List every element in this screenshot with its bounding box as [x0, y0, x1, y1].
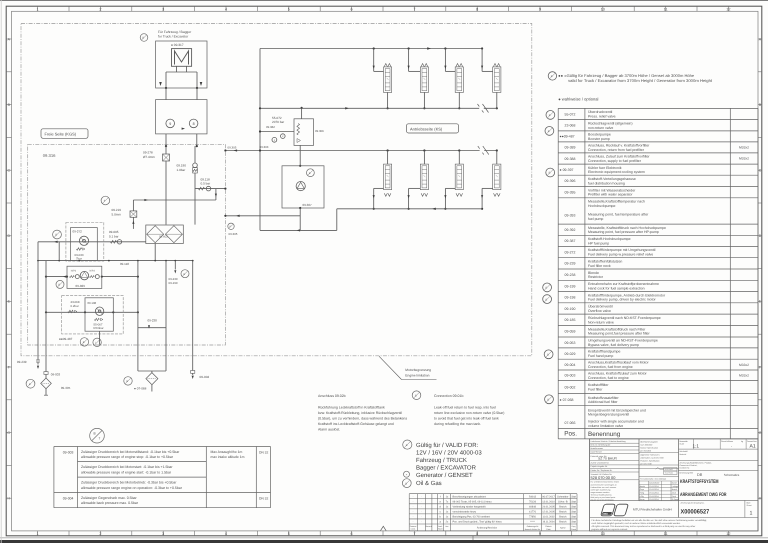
svg-text:unbemaßte, nach DIN 7168: unbemaßte, nach DIN 7168	[640, 456, 663, 459]
svg-text:Kraftstoffeinfüllstutzen: Kraftstoffeinfüllstutzen	[588, 259, 622, 263]
svg-text:Produkte, Spezifikation: Produkte, Spezifikation	[640, 460, 659, 463]
svg-text:09-199: 09-199	[565, 284, 576, 288]
svg-text:09-029: 09-029	[565, 352, 576, 356]
svg-text:Überströmventil: Überströmventil	[588, 305, 613, 309]
svg-text:19.11.2014: 19.11.2014	[649, 485, 658, 488]
svg-text:09-239: 09-239	[17, 360, 27, 364]
svg-text:Measuring point,fuel pressure: Measuring point,fuel pressure after filt…	[588, 332, 651, 336]
svg-text:11.01.2002: 11.01.2002	[542, 516, 555, 519]
svg-text:Anz: Anz	[445, 525, 448, 528]
svg-text:Prefilter with water separator: Prefilter with water separator	[588, 193, 633, 197]
svg-text:purpose without our express co: purpose without our express consent.	[592, 528, 629, 531]
svg-text:B: B	[83, 341, 85, 344]
svg-text:Umgehungsventil an ND-KST-Foer: Umgehungsventil an ND-KST-Foerderpumpe	[588, 339, 658, 343]
svg-text:09.303: 09.303	[260, 145, 269, 149]
svg-text:Kühler fuer Elektronik: Kühler fuer Elektronik	[588, 166, 622, 170]
svg-text:●●09-487: ●●09-487	[59, 337, 73, 341]
svg-text:54043: 54043	[529, 495, 537, 498]
svg-text:9: 9	[169, 122, 171, 126]
svg-text:8: 8	[476, 532, 478, 536]
svg-text:M33x2: M33x2	[739, 146, 749, 150]
svg-text:09-002: 09-002	[565, 385, 576, 389]
svg-text:23-068: 23-068	[565, 124, 576, 128]
svg-text:Broich: Broich	[672, 488, 677, 491]
svg-text:Vorfilter mit Wasserabscheider: Vorfilter mit Wasserabscheider	[588, 188, 636, 192]
svg-text:8: 8	[476, 7, 478, 11]
svg-text:All rights reserved. This docu: All rights reserved. This document may n…	[592, 525, 696, 528]
svg-text:09.316: 09.316	[43, 153, 56, 158]
svg-text:Pos.: Pos.	[564, 431, 577, 438]
svg-text:Oil & Gas: Oil & Gas	[416, 480, 442, 487]
svg-text:Konform-Nr.: Konform-Nr.	[680, 466, 691, 469]
svg-text:09.198: 09.198	[88, 301, 97, 305]
svg-text:require our prior permission.: require our prior permission.	[591, 499, 615, 502]
svg-text:Hochdruckpumpe: Hochdruckpumpe	[588, 204, 615, 208]
svg-text:19.11.2004: 19.11.2004	[542, 521, 555, 524]
svg-text:09-029: 09-029	[76, 284, 86, 288]
svg-text:Datum: Datum	[546, 525, 552, 528]
svg-text:2070 bar: 2070 bar	[272, 120, 284, 124]
svg-text:4: 4	[225, 7, 227, 11]
svg-text:nach ISO1302: nach ISO1302	[640, 443, 652, 446]
svg-text:09-395: 09-395	[565, 190, 576, 194]
svg-text:Dose/Theorie: Dose/Theorie	[591, 450, 602, 453]
svg-text:2: 2	[99, 532, 101, 536]
svg-text:09-059: 09-059	[565, 330, 576, 334]
svg-text:Bypass valve, fuel delivery pu: Bypass valve, fuel delivery pump	[588, 343, 639, 347]
svg-text:Fuel filler neck: Fuel filler neck	[588, 264, 611, 268]
svg-text:Änderungs-Nr: Änderungs-Nr	[527, 525, 539, 528]
svg-text:B: B	[183, 273, 185, 276]
svg-text:06.07.2017: 06.07.2017	[542, 495, 555, 498]
svg-text:0.5 bar: 0.5 bar	[201, 182, 211, 186]
svg-text:C: C	[759, 169, 762, 173]
svg-text:valid for Truck / Excavator fr: valid for Truck / Excavator from 3700m H…	[568, 78, 713, 83]
svg-text:12: 12	[726, 532, 730, 536]
svg-text:Injector with single accumulat: Injector with single accumulator and	[588, 420, 644, 424]
svg-text:Rückführung Leckkraftstoff in: Rückführung Leckkraftstoff in Kraftstoff…	[318, 405, 385, 409]
svg-text:per DIN 7168: per DIN 7168	[640, 463, 651, 466]
svg-text:09.219: 09.219	[112, 208, 122, 212]
svg-text:Zulässiger Druckbereich bei Mo: Zulässiger Druckbereich bei Motorstillst…	[81, 450, 180, 454]
svg-text:Einspritzventil mit Einzelspei: Einspritzventil mit Einzelspeicher und	[588, 408, 646, 412]
svg-text:Datum/Date: Datum/Date	[649, 482, 659, 485]
svg-text:Measuring point, fuel temperat: Measuring point, fuel temperature after	[588, 213, 649, 217]
svg-text:9: 9	[539, 7, 541, 11]
svg-text:volume limitation valve: volume limitation valve	[588, 424, 623, 428]
svg-text:verschleissteile hinzu: verschleissteile hinzu	[453, 510, 477, 513]
svg-text:H: H	[7, 497, 10, 501]
svg-text:DN 32: DN 32	[259, 450, 269, 454]
svg-text:Generator / GENSET: Generator / GENSET	[416, 472, 473, 479]
svg-text:8: 8	[193, 122, 195, 126]
svg-text:12.01.2005: 12.01.2005	[542, 510, 555, 513]
svg-text:1:1: 1:1	[693, 443, 700, 448]
svg-text:Connection, fuel from engine: Connection, fuel from engine	[588, 365, 633, 369]
svg-text:1.0bar: 1.0bar	[177, 168, 186, 172]
svg-text:41776: 41776	[529, 510, 537, 513]
svg-text:09-190: 09-190	[565, 307, 576, 311]
svg-text:7bar: 7bar	[76, 256, 82, 260]
svg-text:SZ 70 BAUR: SZ 70 BAUR	[598, 457, 617, 461]
svg-text:Überdruckventil: Überdruckventil	[588, 110, 613, 114]
svg-text:A1: A1	[750, 444, 756, 450]
svg-text:Allgemeine Toleranzen:: Allgemeine Toleranzen:	[640, 453, 660, 456]
svg-text:B: B	[548, 130, 550, 133]
svg-text:7: 7	[413, 532, 415, 536]
svg-text:B: B	[126, 380, 128, 383]
svg-text:Lieferbares Zubehör / Zubehör-: Lieferbares Zubehör / Zubehör-Bestellung	[591, 440, 626, 443]
svg-text:Stat: Stat	[571, 510, 576, 513]
svg-text:Stat: Stat	[571, 505, 576, 508]
svg-text:S.Her.-B: S.Her.-B	[558, 500, 568, 503]
svg-text:Anschluss, Kraftstoffzulauf zu: Anschluss, Kraftstoffzulauf zum Motor	[588, 371, 648, 375]
svg-text:Fuel filter: Fuel filter	[588, 388, 603, 392]
svg-text:Gewicht/Mass: Gewicht/Mass	[721, 440, 733, 443]
svg-text:98-002 Texte, 05-005, 09-111 h: 98-002 Texte, 05-005, 09-111 hinzu	[453, 500, 493, 503]
svg-text:1: 1	[37, 7, 39, 11]
svg-text:Entnahmehahn zur Kraftstoffpro: Entnahmehahn zur Kraftstoffprobenentnahm…	[588, 282, 659, 286]
svg-text:Zrich: Zrich	[672, 495, 676, 498]
svg-text:09-004: 09-004	[63, 497, 74, 501]
svg-text:D: D	[7, 234, 10, 238]
svg-text:Pos. und Druck geänd., Text 'g: Pos. und Druck geänd., Text 'gültig für'…	[453, 521, 503, 524]
svg-text:7: 7	[413, 7, 415, 11]
svg-text:4: 4	[225, 532, 227, 536]
svg-text:B: B	[546, 287, 548, 290]
svg-text:Für Fahrzeug / Bagger: Für Fahrzeug / Bagger	[158, 30, 192, 34]
svg-text:Bagger / EXCAVATOR: Bagger / EXCAVATOR	[416, 465, 477, 472]
svg-text:Schematics: Schematics	[724, 473, 740, 477]
svg-text:Check: Check	[571, 528, 576, 531]
svg-text:M33x2: M33x2	[739, 363, 749, 367]
svg-text:09-004: 09-004	[565, 363, 576, 367]
svg-text:H: H	[759, 497, 762, 501]
svg-text:09-199: 09-199	[169, 281, 178, 285]
svg-text:Hand cock for fuel sample extr: Hand cock for fuel sample extraction	[588, 286, 645, 290]
svg-text:B: B	[549, 114, 551, 117]
svg-text:Stat: Stat	[571, 500, 576, 503]
svg-text:allowable back pressure max. 0: allowable back pressure max. 0.5bar	[81, 501, 139, 505]
svg-text:Messstelle, Kraftstoffdruck na: Messstelle, Kraftstoffdruck nach Hochdru…	[588, 226, 666, 230]
svg-text:09-392: 09-392	[565, 228, 576, 232]
svg-text:B: B	[547, 399, 549, 402]
svg-text:DB: DB	[697, 473, 703, 477]
svg-text:Name: Name	[672, 482, 677, 485]
svg-text:09-393: 09-393	[565, 214, 576, 218]
svg-text:1: 1	[37, 532, 39, 536]
svg-text:B: B	[415, 394, 417, 397]
svg-text:10: 10	[601, 7, 605, 11]
svg-text:B: B	[549, 172, 551, 175]
svg-text:Zulässiger Gegendruck max. 0.5: Zulässiger Gegendruck max. 0.5bar	[81, 496, 137, 500]
svg-text:P: P	[229, 226, 231, 229]
svg-text:Connection 09.01b: Connection 09.01b	[434, 394, 463, 398]
svg-text:11: 11	[664, 532, 668, 536]
svg-text:Unbrauchbar nur nach unserer: Unbrauchbar nur nach unserer	[591, 486, 617, 489]
svg-text:B: B	[142, 37, 144, 40]
svg-text:M33x2: M33x2	[739, 374, 749, 378]
svg-text:75128: 75128	[529, 500, 537, 503]
svg-text:D: D	[759, 234, 762, 238]
svg-text:Cond.: Cond.	[411, 528, 416, 531]
svg-text:Bemerk: Bemerk	[426, 525, 432, 528]
svg-text:Format/Size: Format/Size	[747, 440, 757, 443]
svg-text:HP fuel pump: HP fuel pump	[588, 241, 609, 245]
svg-text:G: G	[759, 431, 762, 435]
svg-text:Kraftstoff-Verteilungsgehaeuse: Kraftstoff-Verteilungsgehaeuse	[588, 177, 636, 181]
svg-text:allowable pressure range engin: allowable pressure range engine on opera…	[81, 486, 183, 490]
svg-text:Gepr: Gepr	[640, 488, 645, 491]
svg-text:Broich: Broich	[559, 521, 567, 524]
svg-text:77850: 77850	[529, 516, 537, 519]
svg-text:Kraftstoff-Hochdruckpumpe: Kraftstoff-Hochdruckpumpe	[588, 237, 631, 241]
svg-text:5: 5	[288, 7, 290, 11]
svg-text:13.01.2010: 13.01.2010	[542, 500, 555, 503]
svg-text:Werkstoff: Werkstoff	[680, 450, 688, 453]
svg-text:09.118: 09.118	[120, 262, 129, 266]
svg-text:Additional fuel filter: Additional fuel filter	[588, 400, 618, 404]
svg-text:fuel pump: fuel pump	[588, 217, 603, 221]
svg-text:Kraftstoffzusatzfilter: Kraftstoffzusatzfilter	[588, 396, 620, 400]
svg-text:Non-return valve: Non-return valve	[588, 320, 614, 324]
svg-text:Projekt-Angabe-Nr.: Projekt-Angabe-Nr.	[591, 465, 608, 468]
svg-text:24.01.2005: 24.01.2005	[542, 505, 555, 508]
svg-text:MTU Friedrichshafen GmbH: MTU Friedrichshafen GmbH	[633, 508, 672, 512]
svg-text:Restrictor: Restrictor	[588, 275, 604, 279]
svg-text:Freie Seite (KGS): Freie Seite (KGS)	[45, 131, 77, 136]
svg-text:09-053: 09-053	[565, 341, 576, 345]
svg-text:Booster pump: Booster pump	[588, 137, 610, 141]
svg-text:55-072: 55-072	[565, 112, 576, 116]
svg-text:fuel distribution housing: fuel distribution housing	[588, 181, 625, 185]
svg-text:for Truck / Excavator: for Truck / Excavator	[158, 35, 189, 39]
svg-text:07-066: 07-066	[565, 421, 576, 425]
svg-text:Stat: Stat	[571, 516, 576, 519]
svg-text:Messstelle,Kraftstoffdruck nac: Messstelle,Kraftstoffdruck nach Filter	[588, 327, 646, 331]
svg-text:Ø7.4mm: Ø7.4mm	[143, 155, 155, 159]
svg-text:3: 3	[162, 532, 164, 536]
svg-text:B: B	[29, 383, 31, 386]
svg-text:Alarm auslöst.: Alarm auslöst.	[318, 427, 340, 431]
svg-text:Anschluss,Kraftstoffrücklauf v: Anschluss,Kraftstoffrücklauf vom Motor	[588, 361, 649, 365]
svg-text:Electronic equipment cooling s: Electronic equipment cooling system	[588, 170, 645, 174]
svg-text:Schneider: Schneider	[557, 495, 568, 498]
svg-text:19.11.2014: 19.11.2014	[649, 495, 658, 498]
svg-text:Technical modification by: Technical modification by	[591, 493, 612, 496]
svg-text:Broich: Broich	[559, 510, 567, 513]
svg-text:Scale: Scale	[680, 442, 685, 445]
svg-text:2: 2	[99, 7, 101, 11]
svg-text:● 07-068: ● 07-068	[134, 387, 147, 391]
svg-text:Anschluss, Rücklauf v. Kraftst: Anschluss, Rücklauf v. Kraftstoffvorfilt…	[588, 144, 650, 148]
svg-text:Press. relief valve: Press. relief valve	[588, 115, 616, 119]
svg-text:09.190: 09.190	[177, 164, 187, 168]
svg-text:3: 3	[162, 7, 164, 11]
svg-text:Best.-Nr. Bestellangabe: Best.-Nr. Bestellangabe	[591, 444, 611, 447]
svg-text:during refuelling the man tank: during refuelling the man tank.	[434, 422, 481, 426]
svg-text:Bearb: Bearb	[640, 485, 645, 488]
svg-text:Rev.lt: Rev.lt	[438, 528, 443, 531]
svg-text:Für Urheberrechtsvermerk: Erst: Für Urheberrechtsvermerk: Erstel-	[591, 481, 620, 484]
svg-text:Freig: Freig	[640, 492, 644, 495]
svg-text:Benennung/Title: Benennung/Title	[680, 471, 694, 474]
svg-text:09-389: 09-389	[565, 146, 576, 150]
svg-text:● wahlweise / optional: ● wahlweise / optional	[558, 96, 598, 101]
svg-text:● 09-397: ● 09-397	[560, 168, 574, 172]
svg-text:DN 32: DN 32	[259, 497, 269, 501]
svg-text:09-238: 09-238	[565, 273, 576, 277]
svg-text:9: 9	[539, 532, 541, 536]
svg-text:Broich: Broich	[559, 505, 567, 508]
svg-text:1: 1	[750, 511, 753, 517]
svg-text:0.2bar: 0.2bar	[71, 304, 79, 308]
svg-text:Connection, return from fuel p: Connection, return from fuel prefilter	[588, 148, 645, 152]
svg-text:Mengenbegrenzungsventil: Mengenbegrenzungsventil	[588, 413, 629, 417]
svg-text:Verbindung wieder hergestellt: Verbindung wieder hergestellt	[453, 505, 486, 508]
svg-text:Blende: Blende	[588, 271, 599, 275]
svg-text:Surface Specification: Surface Specification	[640, 447, 658, 450]
svg-text:Rückschlagventil (allgemein): Rückschlagventil (allgemein)	[588, 121, 633, 125]
svg-text:Stat: Stat	[571, 521, 576, 524]
svg-text:noch Dritten zugänglich gemach: noch Dritten zugänglich gemacht, noch in…	[592, 522, 681, 525]
svg-text:Berichtigung Pos. 03-700 entfe: Berichtigung Pos. 03-700 entfernt	[453, 516, 491, 519]
svg-text:Bemerk-Notice No: Bemerk-Notice No	[525, 528, 540, 531]
svg-text:allowable pressure range of en: allowable pressure range of engine start…	[81, 470, 172, 474]
svg-text:Kraftstoff ins Leckkraftstoff-: Kraftstoff ins Leckkraftstoff-Gehäuse ge…	[318, 422, 394, 426]
svg-text:Beschleunigungen aktualisiert: Beschleunigungen aktualisiert	[453, 495, 487, 498]
svg-text:Fuel hand pump: Fuel hand pump	[588, 354, 613, 358]
svg-text:12: 12	[726, 7, 730, 11]
svg-text:Messstelle,Kraftstofftemperatu: Messstelle,Kraftstofftemperatur nach	[588, 200, 645, 204]
svg-text:Antriebsseite (KS): Antriebsseite (KS)	[410, 126, 443, 131]
svg-text:B: B	[94, 432, 96, 436]
svg-text:N/P3: N/P3	[71, 270, 77, 273]
svg-text:Zulässiger Druckbereich bei Mo: Zulässiger Druckbereich bei Motorstart: …	[81, 465, 173, 469]
svg-text:● 09.317: ● 09.317	[171, 43, 184, 47]
svg-text:09-272: 09-272	[565, 250, 576, 254]
svg-text:Zrich: Zrich	[672, 492, 676, 495]
svg-text:Anschluss, Zulauf zum Kraftsto: Anschluss, Zulauf zum Kraftstoffvorfilte…	[588, 155, 650, 159]
svg-text:12V / 16V / 20V 4000-03: 12V / 16V / 20V 4000-03	[416, 450, 482, 457]
svg-text:6: 6	[351, 7, 353, 11]
svg-text:09-387: 09-387	[565, 239, 576, 243]
svg-text:Anschluss 09.02b: Anschluss 09.02b	[318, 394, 346, 398]
svg-text:Oberflächenangaben: Oberflächenangaben	[640, 440, 658, 443]
svg-text:+0.1 Rz16: +0.1 Rz16	[665, 472, 673, 475]
svg-text:40848: 40848	[529, 505, 537, 508]
svg-text:KRAFTSTOFFSYSTEM: KRAFTSTOFFSYSTEM	[680, 479, 719, 485]
svg-text:09-004: 09-004	[200, 375, 210, 379]
svg-text:Copy: Copy	[571, 525, 575, 528]
svg-text:Connection, fuel to engine: Connection, fuel to engine	[588, 376, 629, 380]
svg-text:Ersatz für / Replaces-Nr.: Ersatz für / Replaces-Nr.	[591, 469, 613, 472]
svg-text:09.307: 09.307	[303, 203, 313, 207]
svg-text:09-003: 09-003	[565, 374, 576, 378]
svg-text:G: G	[7, 431, 10, 435]
svg-text:ARRANGEMENT DWG FOR: ARRANGEMENT DWG FOR	[680, 492, 727, 498]
svg-text:09-396: 09-396	[565, 179, 576, 183]
svg-text:Lehrign: Lehrign	[672, 485, 678, 488]
svg-text:vorherigen Zustimmung: vorherigen Zustimmung	[591, 488, 611, 491]
svg-text:Stat: Stat	[571, 495, 576, 498]
svg-text:09.305: 09.305	[228, 145, 237, 149]
svg-text:Zeichnungs-Nr./Drawing-No.: Zeichnungs-Nr./Drawing-No.	[681, 502, 705, 505]
svg-text:Für diese technische Unterlage: Für diese technische Unterlage behalten …	[592, 519, 708, 522]
svg-text:Max Ansaughöhe 1m: Max Ansaughöhe 1m	[211, 450, 243, 454]
svg-text:B: B	[405, 482, 407, 485]
svg-text:Kraftstoffförderpumpe mit Umge: Kraftstoffförderpumpe mit Umgehungsventi…	[588, 248, 656, 252]
svg-text:09-185: 09-185	[565, 318, 576, 322]
svg-text:kg: kg	[741, 440, 743, 443]
svg-text:C: C	[7, 169, 10, 173]
svg-text:● 07-068: ● 07-068	[560, 398, 574, 402]
svg-text:●●09-487: ●●09-487	[560, 135, 575, 139]
svg-text:09.305: 09.305	[229, 232, 238, 236]
svg-text:Gültig für / VALID FOR:: Gültig für / VALID FOR:	[416, 442, 479, 449]
svg-text:09-395: 09-395	[61, 386, 71, 390]
svg-text:Leak-off fuel return to fuel r: Leak-off fuel return to fuel resp. into …	[434, 405, 496, 409]
svg-text:B: B	[546, 298, 548, 301]
svg-text:M33x2: M33x2	[739, 157, 749, 161]
svg-text:vorgenommen werden.: vorgenommen werden.	[591, 491, 611, 494]
svg-text:*****: *****	[530, 521, 535, 524]
svg-text:Measuring point, fuel pressure: Measuring point, fuel pressure after HP-…	[588, 230, 659, 234]
svg-text:5: 5	[288, 532, 290, 536]
svg-text:Overflow valve: Overflow valve	[588, 309, 611, 313]
svg-text:Zulässiger Druckbereich bei Mo: Zulässiger Druckbereich bei Motorbetrieb…	[81, 481, 177, 485]
svg-text:10: 10	[601, 532, 605, 536]
svg-text:Connection, supply to fuel pre: Connection, supply to fuel prefilter	[588, 159, 642, 163]
svg-text:Für Außenmaße / ohne Maßstab: Für Außenmaße / ohne Maßstab	[640, 478, 666, 481]
svg-text:09-198: 09-198	[565, 296, 576, 300]
svg-text:Fuel delivery pump w.pressure: Fuel delivery pump w.pressure relief val…	[588, 253, 653, 257]
svg-text:N/P3: N/P3	[90, 270, 96, 273]
svg-text:B: B	[551, 75, 553, 78]
svg-text:per ISO1302: per ISO1302	[640, 450, 651, 453]
svg-text:X00006527: X00006527	[681, 509, 710, 516]
svg-text:Rückschlagventil nach ND-KST-F: Rückschlagventil nach ND-KST-Foerderpump…	[588, 316, 661, 320]
svg-text:09-238: 09-238	[148, 318, 158, 322]
svg-text:max intake altitude 1m: max intake altitude 1m	[211, 455, 245, 459]
svg-text:return line exclusive non-retu: return line exclusive non-return valve (…	[434, 411, 504, 415]
svg-text:bzw. Kraftstoff-Rückleitung, i: bzw. Kraftstoff-Rückleitung, inklusive R…	[318, 411, 402, 415]
svg-text:B: B	[547, 354, 549, 357]
svg-text:Engine limitation: Engine limitation	[405, 373, 429, 377]
svg-text:non-return valve: non-return valve	[588, 126, 613, 130]
svg-text:528 070 00 00: 528 070 00 00	[591, 475, 617, 480]
svg-text:09-278: 09-278	[143, 151, 153, 155]
svg-text:allowable pressure range of en: allowable pressure range of engine stop:…	[81, 455, 174, 459]
svg-text:3.5mbar: 3.5mbar	[93, 326, 104, 330]
svg-text:19.11.2014: 19.11.2014	[649, 488, 658, 491]
svg-text:09-005: 09-005	[109, 230, 119, 234]
svg-text:19.11.2014: 19.11.2014	[649, 492, 658, 495]
svg-text:to avoid that fuel get into le: to avoid that fuel get into leak-off fue…	[434, 416, 499, 420]
svg-text:(0.5bar), um zu verhindern, da: (0.5bar), um zu verhindern, dass während…	[318, 416, 407, 420]
svg-text:Motorbegrenzung: Motorbegrenzung	[405, 368, 431, 372]
svg-text:Broich: Broich	[559, 516, 567, 519]
svg-text:Kraftstoffhandpumpe: Kraftstoffhandpumpe	[588, 350, 620, 354]
svg-text:Kraftstofffilter: Kraftstofffilter	[588, 383, 609, 387]
svg-text:09-239: 09-239	[565, 262, 576, 266]
svg-text:Sheet: Sheet	[747, 504, 752, 507]
svg-text:Fahrzeug / TRUCK: Fahrzeug / TRUCK	[416, 457, 467, 464]
svg-text:0.1 bar: 0.1 bar	[109, 234, 119, 238]
svg-text:09.602: 09.602	[159, 234, 168, 238]
svg-text:09.306: 09.306	[315, 129, 324, 133]
svg-text:09.382: 09.382	[266, 125, 275, 129]
